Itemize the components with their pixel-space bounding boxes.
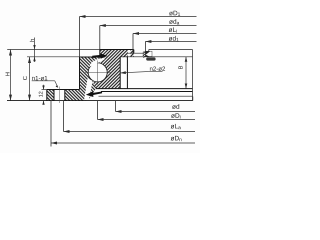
view upper step line: [128, 52, 145, 54]
arrow oda: [100, 24, 106, 27]
dim line od1: [145, 41, 196, 43]
arrow oDn: [51, 142, 57, 145]
dim 12: [43, 85, 45, 90]
dim H: [10, 50, 12, 101]
ext line od: [115, 101, 117, 112]
left extension line outer top surface: [27, 56, 80, 58]
seam gap bottom-left of ball: [84, 78, 93, 100]
taper plug box: [146, 51, 152, 56]
arrow oDi: [98, 118, 104, 121]
svg-text:øDi: øDi: [171, 113, 181, 121]
left extension line top (raised top surface): [7, 49, 100, 51]
svg-text:øDn: øDn: [170, 135, 182, 143]
ext line oDi: [97, 101, 99, 120]
bolt hole outer ring (n1-o1): [54, 90, 65, 101]
ext line oLi: [132, 34, 134, 54]
load arrow top: [92, 53, 107, 58]
bolt hole centerline outer: [59, 87, 61, 104]
plug dark corner: [146, 51, 150, 54]
dim B: [185, 57, 187, 89]
dim line oDn: [51, 142, 195, 144]
svg-text:øda: øda: [169, 19, 180, 27]
dim line oLa: [64, 131, 196, 133]
dimension lines bottom: [51, 97, 195, 147]
svg-text:12: 12: [38, 91, 44, 97]
hole wall left (outer ring flange): [53, 90, 55, 101]
dim line oda: [100, 25, 197, 27]
ext line oLa: [63, 101, 65, 132]
right end tick: [192, 97, 194, 101]
inner ring section overlay hatch: [92, 50, 128, 89]
ext line oda: [99, 26, 101, 50]
arrow od1: [145, 40, 151, 43]
load arrow bottom: [86, 91, 102, 97]
ball horizontal centerline: [85, 71, 112, 73]
ball (rolling element): [88, 63, 107, 82]
section outline edges: [47, 50, 193, 101]
plug detail hatch sliver: [143, 52, 145, 57]
band extension over hole: [128, 50, 134, 57]
svg-text:n1-ø1: n1-ø1: [32, 75, 49, 82]
dim line oLi: [133, 33, 197, 35]
ext line oD1: [79, 17, 81, 58]
seal line 2: [99, 95, 193, 97]
svg-text:ød1: ød1: [168, 36, 179, 44]
view chamfer line top: [120, 56, 192, 58]
dim h: [34, 38, 36, 63]
view right edge: [192, 50, 194, 101]
svg-text:n2-ø2: n2-ø2: [149, 66, 166, 73]
view part lines right: [120, 50, 192, 101]
view top edge: [149, 49, 193, 51]
svg-text:øLa: øLa: [170, 123, 181, 131]
outer ring top edge: [80, 56, 100, 58]
svg-text:h: h: [29, 39, 36, 42]
svg-text:øD1: øD1: [169, 10, 181, 18]
hole wall right (inner ring): [126, 57, 128, 89]
outer ring section (hatched): [47, 50, 128, 101]
bolt hole inner ring (n2-o2): [120, 57, 127, 88]
arrow oD1: [80, 15, 86, 18]
step edge up to raised lip: [99, 50, 101, 58]
svg-text:B: B: [179, 65, 185, 69]
counterbore slit: [128, 50, 130, 57]
svg-text:C: C: [22, 76, 29, 80]
inner ring top edge: [100, 49, 134, 51]
dimension lines top: [80, 17, 197, 58]
svg-text:øLi: øLi: [168, 27, 177, 35]
flange top edge: [47, 89, 80, 91]
hole wall right (outer ring flange): [64, 90, 66, 101]
ball vertical centerline: [97, 61, 99, 85]
flange left edge: [46, 90, 48, 101]
dim line oD1: [80, 16, 197, 18]
leader n2-o2: [120, 72, 148, 73]
inner ring bottom edge: [96, 88, 193, 90]
seam gap top-left of ball: [89, 57, 105, 67]
outer ring left edge: [79, 57, 81, 90]
hole wall left (inner ring): [119, 57, 121, 89]
plug dark wedge: [146, 55, 149, 57]
dim C: [29, 57, 31, 101]
arrow oLi: [133, 32, 139, 35]
ext line 12 top: [42, 89, 47, 91]
arrow oLa: [64, 130, 70, 133]
gap under inner ring: [89, 89, 128, 100]
pin bar below: [146, 57, 155, 60]
bottom face line: [7, 100, 193, 102]
view step vertical: [148, 50, 150, 54]
leader n1-o1: [32, 80, 55, 82]
ext line oDn: [50, 101, 52, 147]
svg-text:H: H: [6, 72, 12, 76]
arrow od: [116, 110, 122, 113]
dim line od: [116, 111, 196, 113]
svg-text:ød: ød: [172, 104, 180, 111]
ext line od1: [144, 42, 146, 54]
dim line oDi: [98, 119, 196, 121]
